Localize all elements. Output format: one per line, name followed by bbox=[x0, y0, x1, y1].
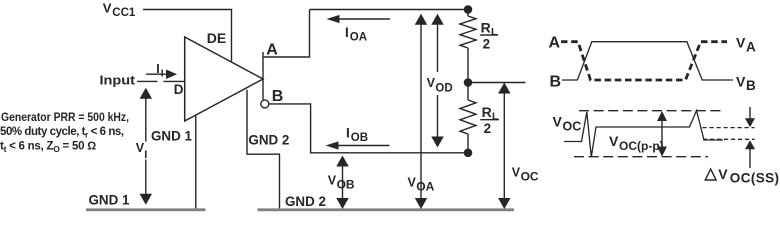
svg-text:V: V bbox=[553, 114, 563, 130]
svg-text:GND 1: GND 1 bbox=[151, 127, 192, 143]
svg-text:L: L bbox=[491, 26, 498, 38]
svg-text:R: R bbox=[482, 104, 492, 120]
svg-text:V: V bbox=[408, 176, 417, 190]
svg-text:GND 2: GND 2 bbox=[248, 131, 289, 147]
svg-text:OB: OB bbox=[337, 178, 355, 192]
svg-text:Input: Input bbox=[100, 74, 136, 88]
svg-text:tt < 6 ns, ZO = 50 Ω: tt < 6 ns, ZO = 50 Ω bbox=[0, 141, 96, 155]
svg-text:CC1: CC1 bbox=[112, 7, 136, 19]
svg-text:GND 2: GND 2 bbox=[285, 193, 326, 209]
svg-text:I: I bbox=[345, 25, 349, 40]
svg-text:V: V bbox=[736, 73, 746, 89]
svg-text:R: R bbox=[481, 19, 491, 35]
svg-text:A: A bbox=[266, 42, 278, 59]
svg-text:2: 2 bbox=[483, 36, 491, 51]
svg-text:V: V bbox=[718, 166, 728, 182]
svg-text:I: I bbox=[144, 149, 147, 161]
svg-text:2: 2 bbox=[484, 121, 492, 136]
svg-text:A: A bbox=[746, 40, 756, 55]
svg-text:GND 1: GND 1 bbox=[89, 192, 130, 208]
svg-text:OD: OD bbox=[435, 83, 452, 95]
svg-text:OC: OC bbox=[521, 170, 539, 184]
svg-text:B: B bbox=[272, 88, 284, 105]
svg-text:I: I bbox=[161, 69, 164, 80]
svg-text:Generator PRR = 500 kHz,: Generator PRR = 500 kHz, bbox=[1, 112, 129, 124]
svg-text:V: V bbox=[103, 1, 112, 16]
svg-text:DE: DE bbox=[207, 30, 226, 46]
svg-text:B: B bbox=[746, 78, 756, 93]
svg-text:D: D bbox=[174, 82, 184, 97]
svg-text:V: V bbox=[427, 76, 436, 90]
svg-text:OB: OB bbox=[351, 132, 368, 144]
svg-text:B: B bbox=[550, 73, 562, 90]
svg-text:I: I bbox=[156, 62, 159, 76]
svg-text:OC(SS): OC(SS) bbox=[730, 170, 780, 185]
svg-text:V: V bbox=[328, 174, 337, 188]
svg-text:△: △ bbox=[704, 166, 718, 183]
svg-text:50% duty cycle, tr < 6 ns,: 50% duty cycle, tr < 6 ns, bbox=[0, 126, 124, 140]
svg-text:OC: OC bbox=[563, 120, 582, 134]
svg-text:V: V bbox=[736, 35, 746, 51]
svg-text:L: L bbox=[492, 111, 499, 123]
svg-text:I: I bbox=[346, 125, 350, 140]
svg-text:V: V bbox=[512, 166, 521, 180]
svg-text:OA: OA bbox=[416, 180, 434, 194]
svg-text:OC(p-p): OC(p-p) bbox=[619, 139, 664, 153]
svg-text:A: A bbox=[549, 35, 561, 52]
svg-text:OA: OA bbox=[350, 31, 367, 43]
svg-text:V: V bbox=[609, 133, 619, 149]
